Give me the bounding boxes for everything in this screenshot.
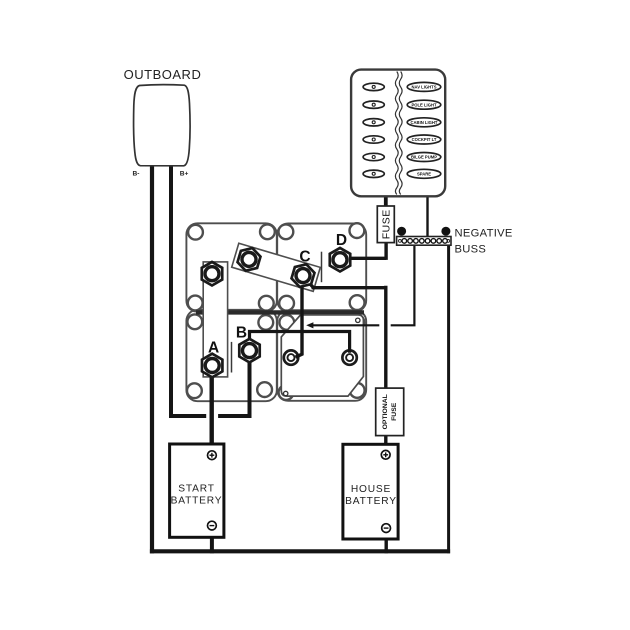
svg-text:B: B xyxy=(236,325,247,342)
svg-text:NEGATIVE: NEGATIVE xyxy=(455,228,513,240)
svg-text:BATTERY: BATTERY xyxy=(171,496,223,507)
svg-text:NAV LIGHTS: NAV LIGHTS xyxy=(411,85,436,90)
svg-text:HOUSE: HOUSE xyxy=(351,484,391,495)
svg-text:C: C xyxy=(299,249,310,266)
svg-text:OPTIONAL: OPTIONAL xyxy=(382,394,389,429)
svg-text:POLE LIGHT: POLE LIGHT xyxy=(411,102,437,107)
svg-text:FUSE: FUSE xyxy=(391,402,398,421)
svg-text:BATTERY: BATTERY xyxy=(345,496,397,507)
svg-text:SPARE: SPARE xyxy=(417,172,431,177)
svg-text:OUTBOARD: OUTBOARD xyxy=(124,67,202,82)
svg-text:COCKPIT LT: COCKPIT LT xyxy=(412,137,437,142)
svg-text:A: A xyxy=(208,340,219,357)
svg-text:BUSS: BUSS xyxy=(455,244,487,256)
svg-text:D: D xyxy=(336,232,347,249)
svg-text:START: START xyxy=(178,484,214,495)
svg-text:BILGE PUMP: BILGE PUMP xyxy=(411,155,437,160)
svg-text:CABIN LIGHT: CABIN LIGHT xyxy=(411,120,438,125)
svg-text:FUSE: FUSE xyxy=(380,209,392,239)
svg-text:B-: B- xyxy=(133,171,140,178)
svg-text:B+: B+ xyxy=(180,171,189,178)
